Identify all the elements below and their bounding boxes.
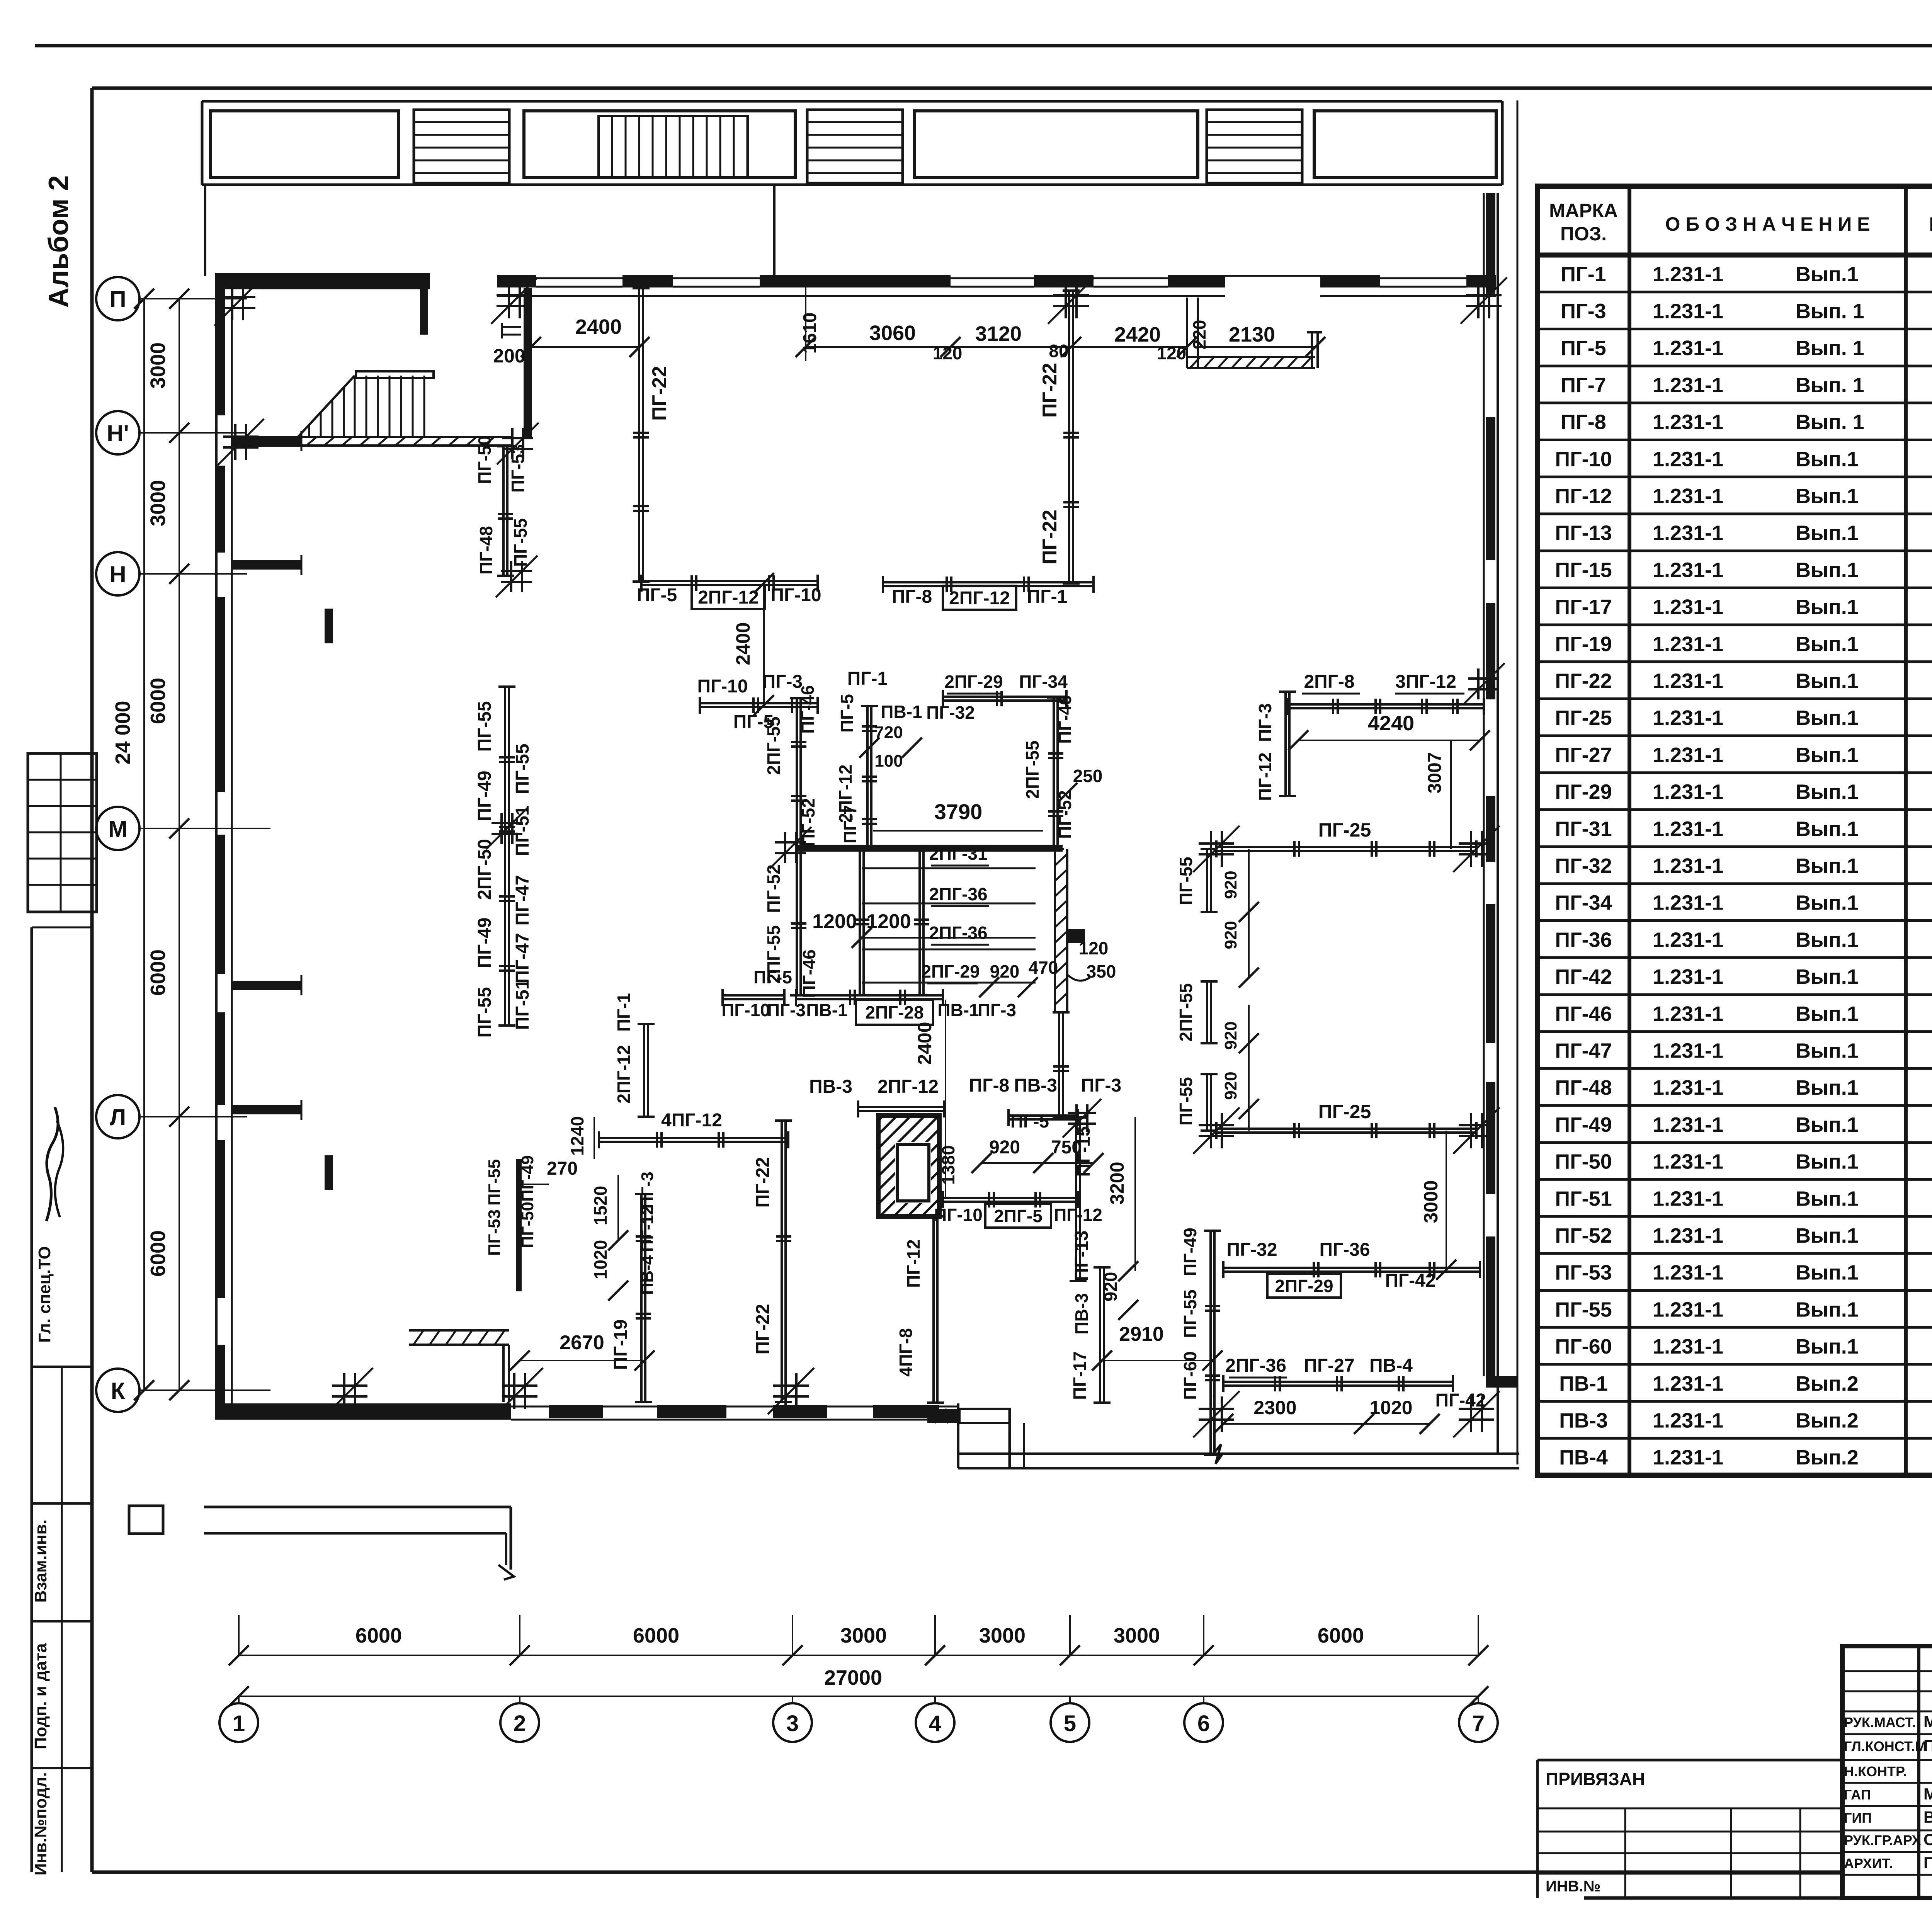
svg-text:ПГ-49: ПГ-49 bbox=[518, 1155, 537, 1202]
partition chain left bbox=[504, 687, 506, 1026]
svg-text:ПВ-1: ПВ-1 bbox=[806, 1000, 847, 1020]
svg-text:1520: 1520 bbox=[590, 1186, 611, 1225]
left dimension ticks bbox=[169, 289, 189, 309]
svg-text:Инв.№подл.: Инв.№подл. bbox=[31, 1772, 50, 1876]
svg-text:ПВ-1: ПВ-1 bbox=[881, 702, 922, 722]
svg-text:О Б О З Н А Ч Е Н И Е: О Б О З Н А Ч Е Н И Е bbox=[1665, 213, 1870, 235]
small stub wall b bbox=[325, 1155, 333, 1190]
lower left stamp column bbox=[31, 927, 33, 1872]
svg-text:2ПГ-50: 2ПГ-50 bbox=[474, 839, 495, 900]
svg-text:ПГ-12: ПГ-12 bbox=[903, 1239, 923, 1288]
svg-text:ПГ-3: ПГ-3 bbox=[978, 1000, 1016, 1020]
partition sanitary mid bbox=[943, 1197, 1078, 1199]
svg-text:Вып.1: Вып.1 bbox=[1796, 595, 1859, 619]
top band bay 2 bbox=[524, 111, 795, 177]
cubicle partition v2 bbox=[918, 848, 921, 995]
svg-text:ПГ-5: ПГ-5 bbox=[753, 967, 792, 987]
svg-text:3060: 3060 bbox=[869, 321, 916, 345]
svg-text:Вып.1: Вып.1 bbox=[1796, 1002, 1859, 1026]
label 2ПГ-12 boxed corridor bbox=[692, 585, 765, 609]
partition ПГ-19 bbox=[640, 1194, 643, 1402]
svg-text:П: П bbox=[109, 286, 126, 312]
svg-text:1200: 1200 bbox=[812, 910, 857, 933]
svg-text:ПГ-55: ПГ-55 bbox=[1176, 857, 1196, 905]
svg-text:Вып.1: Вып.1 bbox=[1796, 965, 1859, 988]
svg-text:1.231-1: 1.231-1 bbox=[1653, 337, 1723, 360]
svg-text:6000: 6000 bbox=[355, 1624, 402, 1647]
svg-text:100: 100 bbox=[874, 752, 903, 770]
junction thick wall left bbox=[775, 841, 806, 844]
svg-text:2ПГ-12: 2ПГ-12 bbox=[878, 1077, 939, 1097]
svg-text:ПГ-46: ПГ-46 bbox=[1555, 1002, 1612, 1026]
svg-text:7: 7 bbox=[1472, 1711, 1485, 1736]
svg-text:ГЛ.КОНСТ.М: ГЛ.КОНСТ.М bbox=[1844, 1738, 1927, 1754]
axis П circle bbox=[96, 277, 139, 320]
svg-text:ПВ-3: ПВ-3 bbox=[809, 1077, 852, 1097]
partition 4ПГ-12 bbox=[599, 1137, 788, 1139]
svg-text:3200: 3200 bbox=[1106, 1162, 1128, 1204]
sheet top edge line bbox=[35, 44, 1932, 48]
axis Н line bbox=[139, 573, 247, 575]
svg-text:1.231-1: 1.231-1 bbox=[1653, 1298, 1723, 1321]
partition ПГ-25 lower bbox=[1216, 1128, 1476, 1130]
svg-text:ПГ-5: ПГ-5 bbox=[1010, 1111, 1049, 1131]
svg-text:ПГ-10: ПГ-10 bbox=[1555, 447, 1612, 471]
stub ПГ-55 r1 bbox=[1206, 849, 1208, 912]
svg-text:ПГ-10: ПГ-10 bbox=[697, 676, 748, 697]
svg-text:РУК.МАСТ.: РУК.МАСТ. bbox=[1844, 1714, 1916, 1730]
svg-text:ПГ-34: ПГ-34 bbox=[1555, 891, 1612, 915]
svg-text:ПГ-31: ПГ-31 bbox=[1555, 817, 1612, 840]
wall stub 200 bbox=[502, 326, 521, 328]
svg-text:120: 120 bbox=[933, 343, 963, 363]
svg-text:Н: Н bbox=[109, 561, 126, 587]
svg-text:1.231-1: 1.231-1 bbox=[1653, 1150, 1723, 1173]
partition ПГ-5 stub bbox=[1009, 1114, 1078, 1117]
bottom porch slab bbox=[204, 1506, 511, 1509]
svg-text:ПГ-22: ПГ-22 bbox=[1039, 510, 1061, 565]
svg-text:ПГ-3: ПГ-3 bbox=[762, 672, 803, 692]
svg-text:ПГ-22: ПГ-22 bbox=[1039, 363, 1061, 418]
svg-text:920: 920 bbox=[989, 1137, 1020, 1158]
cubicle partition v1 bbox=[859, 848, 861, 995]
svg-text:470: 470 bbox=[1029, 957, 1058, 978]
bottom dimension line 27000 bbox=[239, 1696, 1478, 1697]
svg-text:ПГ-1: ПГ-1 bbox=[1027, 587, 1067, 607]
svg-text:Вып.1: Вып.1 bbox=[1796, 1298, 1859, 1321]
svg-text:ПВ-3: ПВ-3 bbox=[1071, 1293, 1092, 1334]
svg-text:1.231-1: 1.231-1 bbox=[1653, 1446, 1723, 1469]
svg-text:Альбом 2: Альбом 2 bbox=[43, 175, 74, 308]
svg-text:1020: 1020 bbox=[590, 1240, 611, 1279]
svg-text:2130: 2130 bbox=[1229, 323, 1275, 346]
cubicle shelf 2 bbox=[862, 903, 1036, 905]
svg-text:1.231-1: 1.231-1 bbox=[1653, 263, 1723, 286]
partition sanitary right bbox=[1075, 1117, 1077, 1281]
partition top sanitary bbox=[858, 1106, 944, 1108]
svg-text:СУХАНОВ: СУХАНОВ bbox=[1923, 1830, 1932, 1849]
svg-text:Вып. 1: Вып. 1 bbox=[1796, 411, 1864, 434]
bottom exterior wall right run bbox=[958, 1452, 1519, 1455]
svg-text:6000: 6000 bbox=[146, 1230, 170, 1277]
svg-text:К: К bbox=[111, 1378, 125, 1404]
svg-text:Н.КОНТР.: Н.КОНТР. bbox=[1844, 1764, 1907, 1779]
svg-text:ПГ-19: ПГ-19 bbox=[1555, 633, 1612, 656]
svg-text:ПГ-15: ПГ-15 bbox=[1073, 1126, 1094, 1177]
svg-text:ПГ-36: ПГ-36 bbox=[1555, 928, 1612, 951]
svg-text:ПГ-25: ПГ-25 bbox=[1318, 819, 1371, 841]
svg-text:Вып.1: Вып.1 bbox=[1796, 633, 1859, 656]
svg-text:ПГ-12: ПГ-12 bbox=[1255, 752, 1275, 801]
svg-text:ПГ-49: ПГ-49 bbox=[474, 917, 495, 968]
junction bm1 bbox=[1199, 1408, 1234, 1410]
svg-text:ПГ-25: ПГ-25 bbox=[1555, 706, 1612, 730]
svg-text:ПГ-55: ПГ-55 bbox=[1176, 1077, 1196, 1126]
svg-text:ПВ-1: ПВ-1 bbox=[1559, 1372, 1608, 1395]
specification table grid bbox=[1537, 186, 1932, 1475]
svg-text:2ПГ-36: 2ПГ-36 bbox=[929, 884, 987, 904]
cubicle shelf 4 bbox=[862, 982, 1036, 984]
top band outline bbox=[202, 100, 1502, 103]
svg-text:920: 920 bbox=[1221, 921, 1240, 949]
svg-text:1.231-1: 1.231-1 bbox=[1653, 1335, 1723, 1358]
svg-text:ПГ-13: ПГ-13 bbox=[1555, 522, 1612, 545]
svg-text:3120: 3120 bbox=[975, 322, 1022, 345]
svg-text:2: 2 bbox=[514, 1711, 526, 1736]
porch left step bbox=[129, 1506, 163, 1534]
top band stair treads bbox=[599, 116, 748, 178]
svg-text:ПГ-46: ПГ-46 bbox=[1055, 695, 1075, 744]
junction tr bbox=[1468, 677, 1499, 680]
svg-text:ПГ-12: ПГ-12 bbox=[1054, 1205, 1102, 1225]
svg-text:ПГ-50: ПГ-50 bbox=[474, 435, 495, 484]
partition 2ПГ-12 vert bbox=[643, 1024, 645, 1117]
drawing frame left border bbox=[90, 88, 94, 1872]
junction top wall 3 bbox=[1053, 294, 1089, 296]
svg-text:Л: Л bbox=[110, 1104, 126, 1130]
svg-text:2ПГ-36: 2ПГ-36 bbox=[929, 923, 987, 943]
axis 4 circle bbox=[916, 1703, 954, 1742]
svg-text:ПГ-15: ПГ-15 bbox=[1555, 558, 1612, 582]
svg-text:ПГ-22: ПГ-22 bbox=[1555, 670, 1612, 693]
partition ПГ-22 room 2 bbox=[1068, 291, 1070, 583]
svg-text:Н': Н' bbox=[107, 420, 129, 446]
left wall sill stub 4 bbox=[232, 1105, 301, 1114]
axis М line bbox=[139, 828, 247, 829]
svg-text:920: 920 bbox=[990, 961, 1020, 981]
axis Н' circle bbox=[96, 411, 139, 454]
svg-text:Вып.1: Вып.1 bbox=[1796, 1150, 1859, 1173]
partition bm2 bbox=[1223, 1381, 1453, 1383]
bottom exterior wall left run bbox=[220, 1403, 511, 1420]
junction stair hall bottom bbox=[501, 570, 532, 572]
svg-text:27000: 27000 bbox=[824, 1666, 882, 1689]
svg-text:ПГ-17: ПГ-17 bbox=[1555, 595, 1612, 619]
svg-text:ПГ-22: ПГ-22 bbox=[648, 366, 671, 421]
binding sub-table bbox=[1537, 1759, 1842, 1762]
hatched wall mid bbox=[1055, 854, 1067, 866]
svg-text:ПГ-3: ПГ-3 bbox=[1561, 300, 1606, 323]
bottom dimension chain line bbox=[239, 1655, 1478, 1656]
svg-text:3ПГ-12: 3ПГ-12 bbox=[1395, 672, 1456, 692]
svg-text:ПГ-19: ПГ-19 bbox=[611, 1319, 631, 1370]
svg-text:ПГ-10: ПГ-10 bbox=[770, 585, 821, 605]
svg-text:1.231-1: 1.231-1 bbox=[1653, 1224, 1723, 1247]
svg-text:3000: 3000 bbox=[1420, 1180, 1442, 1223]
svg-text:Вып.1: Вып.1 bbox=[1796, 263, 1859, 286]
partition ПГ-17 bbox=[1099, 1267, 1101, 1403]
svg-text:ПГ-1: ПГ-1 bbox=[847, 668, 888, 689]
svg-text:4ПГ-12: 4ПГ-12 bbox=[661, 1110, 722, 1131]
svg-text:ПВ-3: ПВ-3 bbox=[1559, 1409, 1608, 1432]
svg-text:Вып. 1: Вып. 1 bbox=[1796, 374, 1864, 397]
svg-text:ПВ-4: ПВ-4 bbox=[1559, 1446, 1608, 1469]
svg-text:Вып.1: Вып.1 bbox=[1796, 670, 1859, 693]
svg-text:ПГ-12: ПГ-12 bbox=[1555, 485, 1612, 508]
svg-text:Вып.1: Вып.1 bbox=[1796, 1335, 1859, 1358]
svg-text:80: 80 bbox=[1049, 341, 1068, 361]
svg-text:6000: 6000 bbox=[146, 678, 170, 724]
junction bottom wall 1 bbox=[332, 1384, 367, 1387]
svg-text:ПГ-25: ПГ-25 bbox=[1318, 1101, 1371, 1122]
left dimension chain line bbox=[179, 299, 180, 1390]
junction r3 bbox=[1459, 842, 1494, 845]
svg-text:ПГ-3: ПГ-3 bbox=[1255, 703, 1275, 742]
svg-text:ВАСИНА: ВАСИНА bbox=[1923, 1808, 1932, 1826]
junction bm2 bbox=[1459, 1408, 1494, 1410]
svg-text:1.231-1: 1.231-1 bbox=[1653, 633, 1723, 656]
partition chain 2732 bbox=[1053, 697, 1055, 849]
junction landing right bbox=[502, 437, 533, 439]
svg-text:ПГ-50: ПГ-50 bbox=[1555, 1150, 1612, 1173]
svg-text:1.231-1: 1.231-1 bbox=[1653, 817, 1723, 840]
junction bottom wall 3 bbox=[773, 1384, 809, 1387]
axis Н' line bbox=[139, 432, 247, 434]
svg-text:ПГ-48: ПГ-48 bbox=[476, 526, 496, 575]
svg-text:1.231-1: 1.231-1 bbox=[1653, 1372, 1723, 1395]
svg-text:ПГ-52: ПГ-52 bbox=[798, 798, 818, 847]
svg-text:2ПГ-28: 2ПГ-28 bbox=[865, 1002, 923, 1022]
svg-text:ПГ-3: ПГ-3 bbox=[767, 1000, 806, 1020]
svg-text:2ПГ-31: 2ПГ-31 bbox=[929, 844, 987, 864]
junction r4 bbox=[1459, 1124, 1494, 1126]
svg-text:ПВ-1: ПВ-1 bbox=[937, 1000, 979, 1020]
svg-text:Вып.1: Вып.1 bbox=[1796, 854, 1859, 878]
svg-text:ПГ-50: ПГ-50 bbox=[518, 1202, 537, 1248]
partition ПГ-60 chain bbox=[1209, 1231, 1212, 1455]
label 2ПГ-28 boxed bbox=[856, 1000, 933, 1025]
svg-text:6000: 6000 bbox=[633, 1624, 679, 1647]
svg-text:Вып.1: Вып.1 bbox=[1796, 891, 1859, 915]
left dimension line 24000 bbox=[143, 299, 145, 1390]
top band bay 1 bbox=[211, 111, 398, 177]
svg-text:Гл. спец.ТО: Гл. спец.ТО bbox=[35, 1246, 54, 1343]
partition mid bbox=[700, 702, 818, 704]
svg-text:М: М bbox=[108, 816, 128, 842]
svg-text:6000: 6000 bbox=[1318, 1624, 1364, 1647]
svg-text:4240: 4240 bbox=[1368, 712, 1414, 735]
svg-text:3000: 3000 bbox=[1114, 1624, 1160, 1647]
svg-text:2400: 2400 bbox=[575, 315, 622, 338]
svg-text:2670: 2670 bbox=[560, 1332, 604, 1354]
svg-text:1.231-1: 1.231-1 bbox=[1653, 670, 1723, 693]
svg-text:3000: 3000 bbox=[840, 1624, 887, 1647]
svg-text:ПГ-55: ПГ-55 bbox=[1555, 1298, 1612, 1321]
svg-text:ПГ-22: ПГ-22 bbox=[753, 1304, 773, 1354]
axis П line bbox=[139, 298, 247, 299]
svg-text:МАТОЯН: МАТОЯН bbox=[1923, 1713, 1932, 1731]
partition left bottom row bbox=[723, 994, 784, 997]
svg-text:ПГ-47: ПГ-47 bbox=[512, 933, 533, 983]
thick wall 3790 bbox=[796, 845, 1063, 852]
svg-text:Вып.2: Вып.2 bbox=[1796, 1372, 1859, 1395]
svg-text:1240: 1240 bbox=[567, 1116, 587, 1156]
svg-text:Вып.1: Вып.1 bbox=[1796, 1039, 1859, 1062]
svg-text:ПГ-52: ПГ-52 bbox=[1055, 790, 1075, 839]
svg-text:Вып.1: Вып.1 bbox=[1796, 558, 1859, 582]
svg-text:ПГ-51: ПГ-51 bbox=[1555, 1187, 1612, 1210]
svg-text:Вып.1: Вып.1 bbox=[1796, 928, 1859, 951]
svg-text:ПГ-1: ПГ-1 bbox=[614, 993, 634, 1032]
svg-text:4ПГ-8: 4ПГ-8 bbox=[896, 1328, 916, 1377]
cubicle shelf 1 bbox=[862, 867, 1036, 869]
partition corridor left bbox=[641, 580, 818, 582]
duct bottom wall hatched bbox=[1190, 357, 1200, 368]
svg-text:ПГ-7: ПГ-7 bbox=[1561, 374, 1606, 397]
svg-text:ПГ-10: ПГ-10 bbox=[721, 1000, 770, 1020]
svg-text:ГАП: ГАП bbox=[1844, 1787, 1871, 1803]
stair room landing wall bbox=[253, 437, 263, 446]
svg-text:5: 5 bbox=[1064, 1711, 1076, 1736]
title block grid bbox=[1842, 1646, 1932, 1898]
door pier hatched bbox=[420, 288, 428, 335]
junction r1 bbox=[1199, 842, 1234, 845]
stub 2ПГ-55 r bbox=[1206, 981, 1208, 1043]
svg-text:ПГ-49: ПГ-49 bbox=[1180, 1228, 1200, 1276]
svg-text:ПГ-42: ПГ-42 bbox=[1555, 965, 1612, 988]
svg-text:1.231-1: 1.231-1 bbox=[1653, 1039, 1723, 1062]
svg-text:3007: 3007 bbox=[1425, 752, 1445, 794]
svg-text:1.231-1: 1.231-1 bbox=[1653, 411, 1723, 434]
label 2ПГ-12 boxed b bbox=[943, 586, 1016, 610]
svg-text:Взам.инв.: Взам.инв. bbox=[31, 1519, 50, 1602]
svg-text:1.231-1: 1.231-1 bbox=[1653, 706, 1723, 730]
svg-text:ПГ-32: ПГ-32 bbox=[926, 702, 975, 723]
axis М stub line bbox=[216, 828, 270, 829]
svg-text:Н А И М Е Н О В А Н И Е: Н А И М Е Н О В А Н И Е bbox=[1929, 213, 1932, 235]
svg-text:ПГ-22: ПГ-22 bbox=[753, 1157, 773, 1207]
label 2ПГ-29 boxed bm bbox=[1267, 1274, 1341, 1298]
top exterior wall run 1 bbox=[215, 273, 430, 288]
L wall bl bbox=[413, 1330, 423, 1345]
svg-text:1: 1 bbox=[233, 1711, 245, 1736]
hatched wall 200 bbox=[524, 288, 532, 438]
svg-text:Вып.2: Вып.2 bbox=[1796, 1446, 1859, 1469]
junction left wall stair bbox=[223, 435, 259, 438]
porch side step bbox=[927, 1409, 959, 1423]
axis Л line bbox=[139, 1116, 247, 1117]
partition ПГ-22 room 1 bbox=[638, 288, 640, 582]
partition ПВ-1 stub bbox=[866, 706, 869, 846]
svg-text:ПГ-27: ПГ-27 bbox=[1555, 743, 1612, 767]
svg-text:Вып.1: Вып.1 bbox=[1796, 485, 1859, 508]
svg-text:ГИП: ГИП bbox=[1844, 1810, 1872, 1826]
svg-text:ПГ-8: ПГ-8 bbox=[892, 587, 932, 607]
svg-text:2ПГ-8: 2ПГ-8 bbox=[1304, 672, 1354, 692]
partition vertical 2ПГ-55 bbox=[796, 698, 798, 995]
svg-text:ПГ-47: ПГ-47 bbox=[512, 875, 533, 925]
svg-text:1020: 1020 bbox=[1369, 1397, 1412, 1418]
partition ПГ-3 tr bbox=[1284, 692, 1287, 796]
svg-text:2300: 2300 bbox=[1253, 1397, 1296, 1418]
svg-text:ПГ-55: ПГ-55 bbox=[474, 987, 495, 1037]
svg-text:24 000: 24 000 bbox=[111, 701, 134, 764]
svg-text:1.231-1: 1.231-1 bbox=[1653, 1409, 1723, 1432]
svg-text:1.231-1: 1.231-1 bbox=[1653, 743, 1723, 767]
svg-text:Вып.1: Вып.1 bbox=[1796, 743, 1859, 767]
svg-text:2ПГ-55: 2ПГ-55 bbox=[764, 716, 784, 775]
svg-text:ПГ-55: ПГ-55 bbox=[510, 518, 531, 567]
svg-text:1.231-1: 1.231-1 bbox=[1653, 854, 1723, 878]
small stub wall a bbox=[325, 609, 333, 643]
partition ПГ-22 bl bbox=[781, 1121, 783, 1402]
svg-text:6: 6 bbox=[1197, 1711, 1210, 1736]
svg-text:920: 920 bbox=[1221, 1021, 1240, 1049]
svg-text:1.231-1: 1.231-1 bbox=[1653, 1076, 1723, 1099]
svg-text:350: 350 bbox=[1087, 961, 1116, 981]
svg-text:1.231-1: 1.231-1 bbox=[1653, 781, 1723, 804]
svg-text:Вып.1: Вып.1 bbox=[1796, 817, 1859, 840]
axis М circle bbox=[96, 807, 139, 850]
svg-text:1.231-1: 1.231-1 bbox=[1653, 485, 1723, 508]
svg-text:6000: 6000 bbox=[146, 949, 170, 996]
svg-text:2ПГ-55: 2ПГ-55 bbox=[1176, 983, 1196, 1041]
svg-text:3790: 3790 bbox=[934, 799, 983, 824]
partition 2ПГ-8 3ПГ-12 bbox=[1287, 703, 1484, 706]
svg-text:2ПГ-29: 2ПГ-29 bbox=[1275, 1276, 1333, 1296]
svg-text:ПГ-3: ПГ-3 bbox=[1081, 1075, 1121, 1096]
svg-text:1.231-1: 1.231-1 bbox=[1653, 374, 1723, 397]
svg-text:ПГ-5: ПГ-5 bbox=[837, 694, 857, 733]
svg-text:ИНВ.№: ИНВ.№ bbox=[1546, 1878, 1600, 1895]
svg-text:ПГ-48: ПГ-48 bbox=[1555, 1076, 1612, 1099]
cubicle shelf 3 bbox=[862, 949, 1036, 951]
svg-text:ПГ-32: ПГ-32 bbox=[1226, 1240, 1277, 1260]
svg-text:ПГ-60: ПГ-60 bbox=[1180, 1351, 1200, 1400]
svg-text:ПГ-55: ПГ-55 bbox=[474, 701, 495, 752]
svg-text:220: 220 bbox=[1189, 320, 1209, 350]
svg-text:ПРИВЯЗАН: ПРИВЯЗАН bbox=[1546, 1769, 1645, 1789]
axis 7 circle bbox=[1459, 1703, 1498, 1742]
svg-text:3000: 3000 bbox=[146, 480, 170, 526]
svg-text:ПГ-55: ПГ-55 bbox=[512, 743, 533, 794]
svg-text:920: 920 bbox=[1221, 1071, 1240, 1100]
svg-text:1.231-1: 1.231-1 bbox=[1653, 1261, 1723, 1284]
svg-text:ПВ-3: ПВ-3 bbox=[1014, 1075, 1057, 1096]
svg-text:ПВ-4: ПВ-4 bbox=[1369, 1355, 1413, 1376]
svg-text:1.231-1: 1.231-1 bbox=[1653, 447, 1723, 471]
drawing frame top border bbox=[92, 87, 1932, 90]
svg-text:1.231-1: 1.231-1 bbox=[1653, 965, 1723, 988]
top band stair flight 1 bbox=[414, 110, 509, 183]
svg-text:РУК.ГР.АРХ: РУК.ГР.АРХ bbox=[1844, 1832, 1921, 1848]
svg-text:ПГ-1: ПГ-1 bbox=[1561, 263, 1606, 286]
svg-text:ПГ-52: ПГ-52 bbox=[764, 864, 784, 913]
svg-text:Вып.1: Вып.1 bbox=[1796, 1224, 1859, 1247]
svg-text:1.231-1: 1.231-1 bbox=[1653, 558, 1723, 582]
svg-text:Вып.1: Вып.1 bbox=[1796, 447, 1859, 471]
svg-text:Вып.1: Вып.1 bbox=[1796, 706, 1859, 730]
